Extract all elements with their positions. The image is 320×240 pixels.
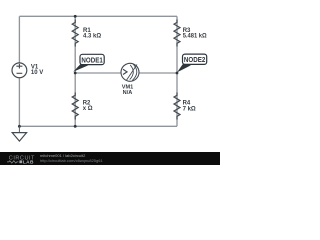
wire bottom rail bbox=[19, 125, 177, 127]
junction bottom branch bbox=[74, 125, 77, 128]
wire branch R1-R2 bbox=[74, 16, 76, 126]
wire middle left bbox=[75, 72, 121, 74]
watermark logo LAB bbox=[19, 160, 22, 163]
wire left rail upper bbox=[18, 16, 20, 63]
junction node2 bbox=[176, 72, 179, 75]
svg-text:5.481 kΩ: 5.481 kΩ bbox=[183, 34, 207, 40]
wire left rail lower bbox=[18, 78, 20, 127]
svg-text:x Ω: x Ω bbox=[83, 106, 93, 112]
svg-text:NODE1: NODE1 bbox=[81, 57, 102, 64]
svg-text:http://circuitlab.com/c6wqnu82: http://circuitlab.com/c6wqnu825g61 bbox=[40, 158, 103, 163]
svg-text:7 kΩ: 7 kΩ bbox=[183, 106, 196, 112]
wire right rail bbox=[176, 16, 178, 126]
svg-text:10 V: 10 V bbox=[31, 70, 43, 76]
node NODE2 flag bbox=[177, 54, 207, 72]
resistor R1 bbox=[72, 20, 101, 47]
voltage source V1 bbox=[12, 63, 43, 78]
junction node1 bbox=[74, 72, 77, 75]
watermark bar bbox=[0, 152, 220, 165]
resistor R3 bbox=[174, 20, 207, 47]
wire top rail bbox=[19, 15, 177, 17]
svg-text:NODE2: NODE2 bbox=[184, 57, 205, 64]
junction top branch bbox=[74, 15, 77, 18]
junction ground bbox=[18, 125, 21, 128]
svg-text:4.3 kΩ: 4.3 kΩ bbox=[83, 34, 101, 40]
svg-text:LAB: LAB bbox=[23, 159, 34, 165]
svg-text:N/A: N/A bbox=[123, 90, 133, 96]
voltmeter VM1 bbox=[121, 63, 139, 96]
node NODE1 flag bbox=[73, 54, 104, 71]
resistor R4 bbox=[174, 93, 196, 120]
wire middle right bbox=[139, 72, 178, 74]
watermark logo zigzag bbox=[7, 161, 18, 163]
ground bbox=[12, 126, 26, 141]
resistor R2 bbox=[72, 93, 93, 120]
